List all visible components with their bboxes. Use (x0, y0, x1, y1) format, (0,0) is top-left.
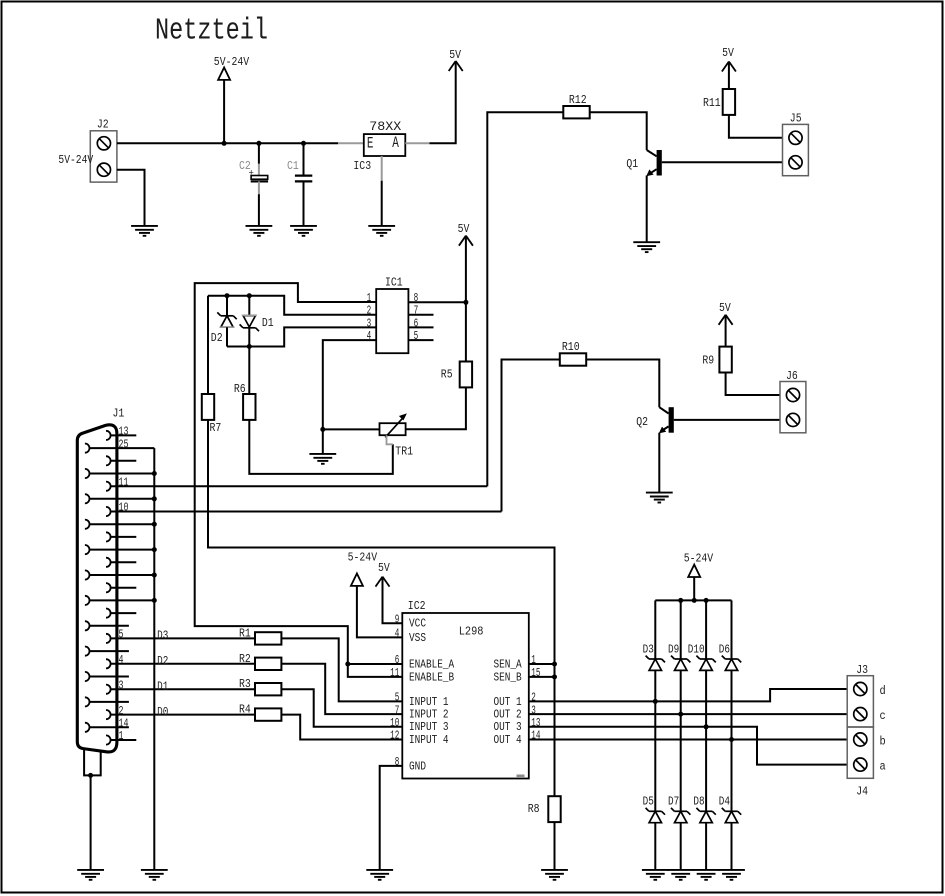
ground D8 (693, 870, 720, 880)
wire OUT3 to J4 a (529, 727, 847, 765)
IC2 pin 13 OUT 3 (494, 716, 541, 734)
J1 pin 10 (106, 501, 502, 516)
zener diode D6 (719, 643, 741, 671)
ground D4 (718, 870, 745, 880)
svg-text:5V: 5V (719, 301, 731, 315)
svg-text:11: 11 (390, 666, 399, 680)
svg-text:OUT 4: OUT 4 (494, 733, 522, 747)
junction bus pin 24 (152, 471, 157, 476)
svg-text:5-24V: 5-24V (348, 550, 378, 564)
svg-text:D8: D8 (693, 795, 704, 809)
svg-text:D3: D3 (157, 629, 168, 643)
svg-text:D4: D4 (719, 795, 730, 809)
svg-text:J4: J4 (856, 784, 868, 798)
ground J1 leg (77, 870, 104, 880)
svg-text:D1: D1 (157, 680, 168, 694)
ground Q1 (633, 242, 660, 252)
resistor R3 (255, 683, 281, 695)
J1 pin 14 (85, 717, 129, 732)
ground R8 (541, 870, 568, 880)
supply 5V at IC2 (376, 577, 390, 587)
wire leg to ground (90, 775, 92, 870)
pin stub IC1-7 (408, 314, 433, 316)
wire J2 pin2 to ground (117, 170, 145, 226)
svg-text:D2: D2 (157, 654, 168, 668)
svg-text:R7: R7 (210, 421, 222, 435)
svg-text:78XX: 78XX (369, 119, 401, 134)
zener diode D3 (643, 643, 665, 671)
svg-text:A: A (392, 134, 399, 152)
wire IC1 pin1 to ENABLE net (195, 283, 377, 664)
svg-text:R4: R4 (239, 703, 251, 717)
svg-text:15: 15 (531, 666, 540, 680)
svg-text:5V: 5V (458, 222, 470, 236)
pin stub TR1 wiper (387, 435, 393, 444)
supply 5V above R5 (459, 236, 473, 246)
connector J5 (783, 124, 809, 175)
IC2 pin 1 SEN_A (494, 653, 536, 671)
regulator IC3 78XX (364, 134, 406, 156)
junction (222, 141, 227, 146)
svg-text:3: 3 (119, 678, 124, 692)
IC2 pin 15 SEN_B (494, 666, 541, 684)
svg-text:D6: D6 (719, 643, 730, 657)
J1 pin 4 (106, 653, 255, 668)
svg-text:R12: R12 (569, 93, 587, 107)
svg-text:R3: R3 (239, 677, 251, 691)
svg-text:IC2: IC2 (408, 599, 426, 613)
wire D1 to rail and R6 (248, 328, 250, 394)
driver IC2 L298 (402, 613, 529, 779)
wire Q1 emitter to ground (646, 176, 648, 243)
svg-text:R9: R9 (702, 353, 714, 367)
supply 5V above R11 (722, 62, 736, 72)
wire OUT1 to J3 d (529, 689, 847, 701)
transistor Q1 (646, 150, 662, 176)
wire column D10/D8 (705, 600, 707, 870)
wire to ENABLE_B (348, 664, 403, 677)
zener diode D7 (668, 795, 690, 823)
svg-text:4: 4 (395, 627, 400, 641)
supply 5V-24V top (218, 68, 230, 80)
svg-text:1: 1 (119, 729, 124, 743)
resistor R2 (255, 658, 281, 670)
J1 pin 11 (106, 475, 487, 490)
junction rail supply (692, 598, 697, 603)
svg-text:12: 12 (390, 729, 399, 743)
ground D7 (667, 870, 694, 880)
svg-text:14: 14 (531, 729, 540, 743)
J1 pin 7 (106, 583, 136, 592)
J1 pin 9 (106, 532, 136, 541)
svg-text:IC3: IC3 (353, 159, 371, 173)
junction OUT at D3 (653, 699, 658, 704)
J1 pin 19 (85, 596, 154, 605)
svg-text:VCC: VCC (409, 617, 426, 631)
wire IC2 SEN_B (529, 676, 555, 678)
zener diode D2 (225, 293, 230, 298)
connector J6 (780, 382, 806, 433)
svg-text:ENABLE_B: ENABLE_B (409, 670, 454, 684)
J1 pin 22 (85, 520, 154, 529)
wire IC2 SEN_A (529, 663, 555, 665)
junction OUT at D9 (678, 712, 683, 717)
junction rail D10 (704, 598, 709, 603)
wire R11 to J5 (729, 115, 783, 138)
junction leg (88, 773, 93, 778)
svg-text:1: 1 (531, 653, 536, 667)
wire 5-24V to VSS (357, 586, 402, 638)
J1 pin 5 (106, 628, 255, 643)
svg-text:R8: R8 (528, 802, 540, 816)
wire column D3/D5 (654, 600, 656, 870)
zener diode D8 (693, 795, 715, 823)
supply 5-24V at diodes (688, 565, 700, 577)
J1 pin 6 (106, 609, 136, 618)
wire R10 right to Q2 (586, 360, 659, 408)
supply 5V top (449, 61, 463, 71)
svg-text:INPUT 4: INPUT 4 (409, 733, 449, 747)
J1 pin 21 (85, 545, 154, 554)
J1 pin 12 (106, 456, 136, 465)
ground D5 (642, 870, 669, 880)
J1 pin 3 (106, 678, 255, 693)
J1 pin 23 (85, 494, 154, 503)
junction SEN_B (552, 674, 557, 679)
svg-text:D0: D0 (157, 705, 168, 719)
junction ENABLE (345, 662, 350, 667)
J1 pin 20 (85, 570, 154, 579)
ground C2 (246, 226, 273, 236)
wire to ENABLE_A (348, 663, 403, 665)
wire IC2 GND to ground (380, 766, 403, 870)
pin stub IC1-5 (408, 339, 433, 341)
diode rail (655, 599, 731, 601)
pin stub IC3 A (405, 142, 429, 144)
zener diode D5 (643, 795, 665, 823)
connector J3 (847, 676, 873, 727)
IC2 pin 4 VSS (395, 627, 426, 645)
wire R12 right to Q1 (590, 112, 647, 150)
junction pin8 (463, 300, 468, 305)
wire IC3 out to 5V (430, 61, 456, 143)
svg-text:+: + (249, 169, 254, 179)
svg-text:5V: 5V (722, 46, 734, 60)
wire R5 to TR1 (406, 387, 466, 429)
resistor R11 (723, 89, 735, 115)
J1 pin 1 (106, 729, 136, 744)
wire IC1 pin2 to diode rail (208, 296, 376, 315)
supply 5V above R9 (719, 315, 733, 325)
svg-text:10: 10 (119, 501, 129, 515)
capacitor C1 (301, 141, 306, 146)
IC2 pin 6 ENABLE_A (395, 653, 455, 671)
svg-text:D2: D2 (211, 331, 223, 345)
wire OUT2 to J3 c (529, 713, 847, 715)
svg-text:5V-24V: 5V-24V (58, 153, 93, 167)
IC2 pin 10 INPUT 3 (390, 716, 449, 734)
svg-text:R5: R5 (441, 368, 453, 382)
wire R12 left to J1 pin11 (487, 112, 563, 486)
transistor Q2 (659, 407, 674, 433)
svg-text:J6: J6 (786, 369, 798, 383)
svg-text:TR1: TR1 (395, 444, 413, 458)
wire 5-24V to rail (693, 577, 695, 600)
svg-text:ENABLE_A: ENABLE_A (409, 657, 455, 671)
svg-text:D1: D1 (262, 316, 274, 330)
ground Q2 (646, 493, 673, 503)
ground J1 bus (141, 870, 168, 880)
svg-text:D3: D3 (643, 643, 654, 657)
J1 mounting leg (84, 749, 101, 776)
wire R3 to INPUT3 (281, 689, 402, 727)
resistor R6 (243, 394, 255, 420)
svg-text:SEN_B: SEN_B (494, 670, 522, 684)
resistor R5 (460, 362, 472, 388)
IC2 pin 5 INPUT 1 (395, 691, 449, 709)
svg-text:E: E (367, 135, 374, 153)
wire R4 to INPUT4 (281, 715, 402, 740)
svg-text:J1: J1 (113, 406, 125, 420)
svg-text:5V-24V: 5V-24V (214, 55, 250, 69)
svg-text:D9: D9 (668, 643, 679, 657)
zener diode D10 (688, 643, 716, 671)
wire 5V to R11 (728, 62, 730, 90)
J1 pin 24 (85, 469, 154, 478)
svg-text:GND: GND (409, 759, 426, 773)
J1 pin 17 (85, 647, 129, 656)
wire column D9/D7 (680, 600, 682, 870)
svg-text:D10: D10 (688, 643, 705, 657)
wire IC1 pin3 to diode rail bottom (227, 327, 376, 346)
svg-text:Q1: Q1 (626, 157, 638, 171)
IC2 pin 14 OUT 4 (494, 729, 541, 747)
J1 pin 16 (85, 672, 129, 681)
svg-text:6: 6 (395, 653, 400, 667)
resistor R1 (255, 632, 281, 644)
junction bus pin 19 (152, 598, 157, 603)
connector J1 shell (77, 425, 117, 752)
wire 5V to R9 (725, 315, 727, 347)
IC2 pin 12 INPUT 4 (390, 729, 449, 747)
svg-text:C1: C1 (287, 159, 299, 173)
svg-text:Q2: Q2 (636, 415, 648, 429)
resistor R12 (563, 106, 589, 118)
resistor R10 (560, 353, 586, 365)
J1 pin 25 (85, 437, 154, 452)
junction bus pin 21 (152, 547, 157, 552)
zener diode D9 (668, 643, 690, 671)
pin stub IC1-6 (408, 326, 433, 328)
junction rail D9 (678, 598, 683, 603)
ground IC2 (366, 870, 393, 880)
svg-text:R10: R10 (562, 340, 580, 354)
svg-text:4: 4 (119, 653, 124, 667)
connector J4 (847, 727, 873, 778)
J1 ground bus (153, 448, 155, 870)
svg-text:D7: D7 (668, 795, 679, 809)
junction rail bottom (247, 344, 252, 349)
junction bus pin 22 (152, 522, 157, 527)
junction bus pin 20 (152, 573, 157, 578)
svg-text:R11: R11 (703, 96, 721, 110)
wire Q2 emitter to ground (658, 433, 660, 493)
IC2 pin 2 OUT 1 (494, 691, 536, 709)
wire J2 pin1 to IC3 (117, 142, 338, 144)
wire Q1 base to J5 (662, 161, 783, 163)
IC2 pin 9 VCC (395, 612, 426, 630)
svg-text:5: 5 (119, 628, 124, 642)
ground C1 (290, 226, 317, 236)
svg-text:a: a (880, 760, 886, 774)
wire R6 to TR1 wiper (249, 420, 392, 474)
wire R2 to INPUT2 (281, 664, 402, 714)
wire OUT4 to J4 b (529, 739, 847, 741)
J1 pin 2 (106, 704, 255, 719)
svg-text:b: b (880, 735, 886, 749)
wire Q2 base to J6 (674, 419, 780, 421)
svg-text:J5: J5 (790, 112, 802, 126)
svg-text:5V: 5V (449, 48, 461, 62)
svg-text:R6: R6 (234, 382, 246, 396)
zener diode D1 (247, 293, 252, 298)
pin stub IC3 GND (381, 156, 383, 181)
capacitor C2 (256, 141, 261, 146)
J1 pin 15 (85, 697, 129, 706)
resistor R8 (548, 796, 560, 822)
svg-text:J3: J3 (856, 663, 868, 677)
ground J2 (131, 226, 158, 236)
svg-text:5V: 5V (378, 561, 390, 575)
wire IC3 GND to ground (381, 181, 383, 226)
zener diode D4 (719, 795, 741, 823)
resistor R9 (719, 347, 731, 373)
pin stub IC3 E (338, 142, 364, 144)
svg-text:Netzteil: Netzteil (155, 14, 268, 49)
svg-text:25: 25 (119, 437, 129, 451)
svg-text:L298: L298 (459, 625, 484, 639)
svg-text:5-24V: 5-24V (684, 552, 714, 566)
wire R10 left to J1 pin10 (502, 360, 560, 512)
svg-text:9: 9 (395, 612, 400, 626)
svg-text:d: d (880, 684, 886, 698)
trimmer TR1 (380, 423, 406, 435)
svg-text:SEN_A: SEN_A (494, 657, 523, 671)
wire rail to R7 (207, 296, 209, 394)
IC2 pin 3 OUT 2 (494, 703, 536, 721)
wire IC1 pin4 down (323, 340, 376, 454)
junction SEN_A (552, 662, 557, 667)
supply 5-24V at IC2 (351, 574, 363, 586)
ground IC1 pin4 (309, 454, 336, 464)
svg-text:R2: R2 (239, 652, 251, 666)
svg-text:J2: J2 (97, 118, 109, 132)
junction TR1 left (320, 427, 325, 432)
wire R7 to SEN net (208, 420, 555, 796)
resistor R4 (255, 708, 281, 720)
svg-text:D5: D5 (643, 795, 654, 809)
wire IC1 pin8 to 5V and R5 (408, 301, 466, 303)
op-amp IC1 (376, 289, 408, 353)
wire R8 to ground (554, 822, 556, 870)
IC2 pin 8 GND (395, 755, 426, 773)
resistor R7 (202, 394, 214, 420)
junction OUT at D6 (729, 737, 734, 742)
junction OUT at D10 (704, 724, 709, 729)
J1 pin 18 (85, 621, 129, 630)
svg-text:8: 8 (395, 755, 400, 769)
J1 pin 8 (106, 558, 136, 567)
wire R9 to J6 (726, 373, 780, 396)
ground IC3 (368, 226, 395, 236)
wire column D6/D4 (731, 600, 733, 870)
svg-text:IC1: IC1 (385, 275, 403, 289)
wire R1 to INPUT1 (281, 638, 402, 701)
svg-text:VSS: VSS (409, 631, 426, 645)
svg-text:c: c (880, 709, 886, 723)
svg-text:11: 11 (119, 475, 129, 489)
junction bus pin 23 (152, 496, 157, 501)
IC2 pin 11 ENABLE_B (390, 666, 454, 684)
IC2 pin 7 INPUT 2 (395, 703, 449, 721)
wire junction to TR1 (323, 428, 380, 430)
connector J2 (90, 131, 117, 182)
wire 5V to VCC (383, 577, 403, 624)
J1 pin 13 (106, 425, 136, 440)
svg-text:R1: R1 (239, 626, 251, 640)
